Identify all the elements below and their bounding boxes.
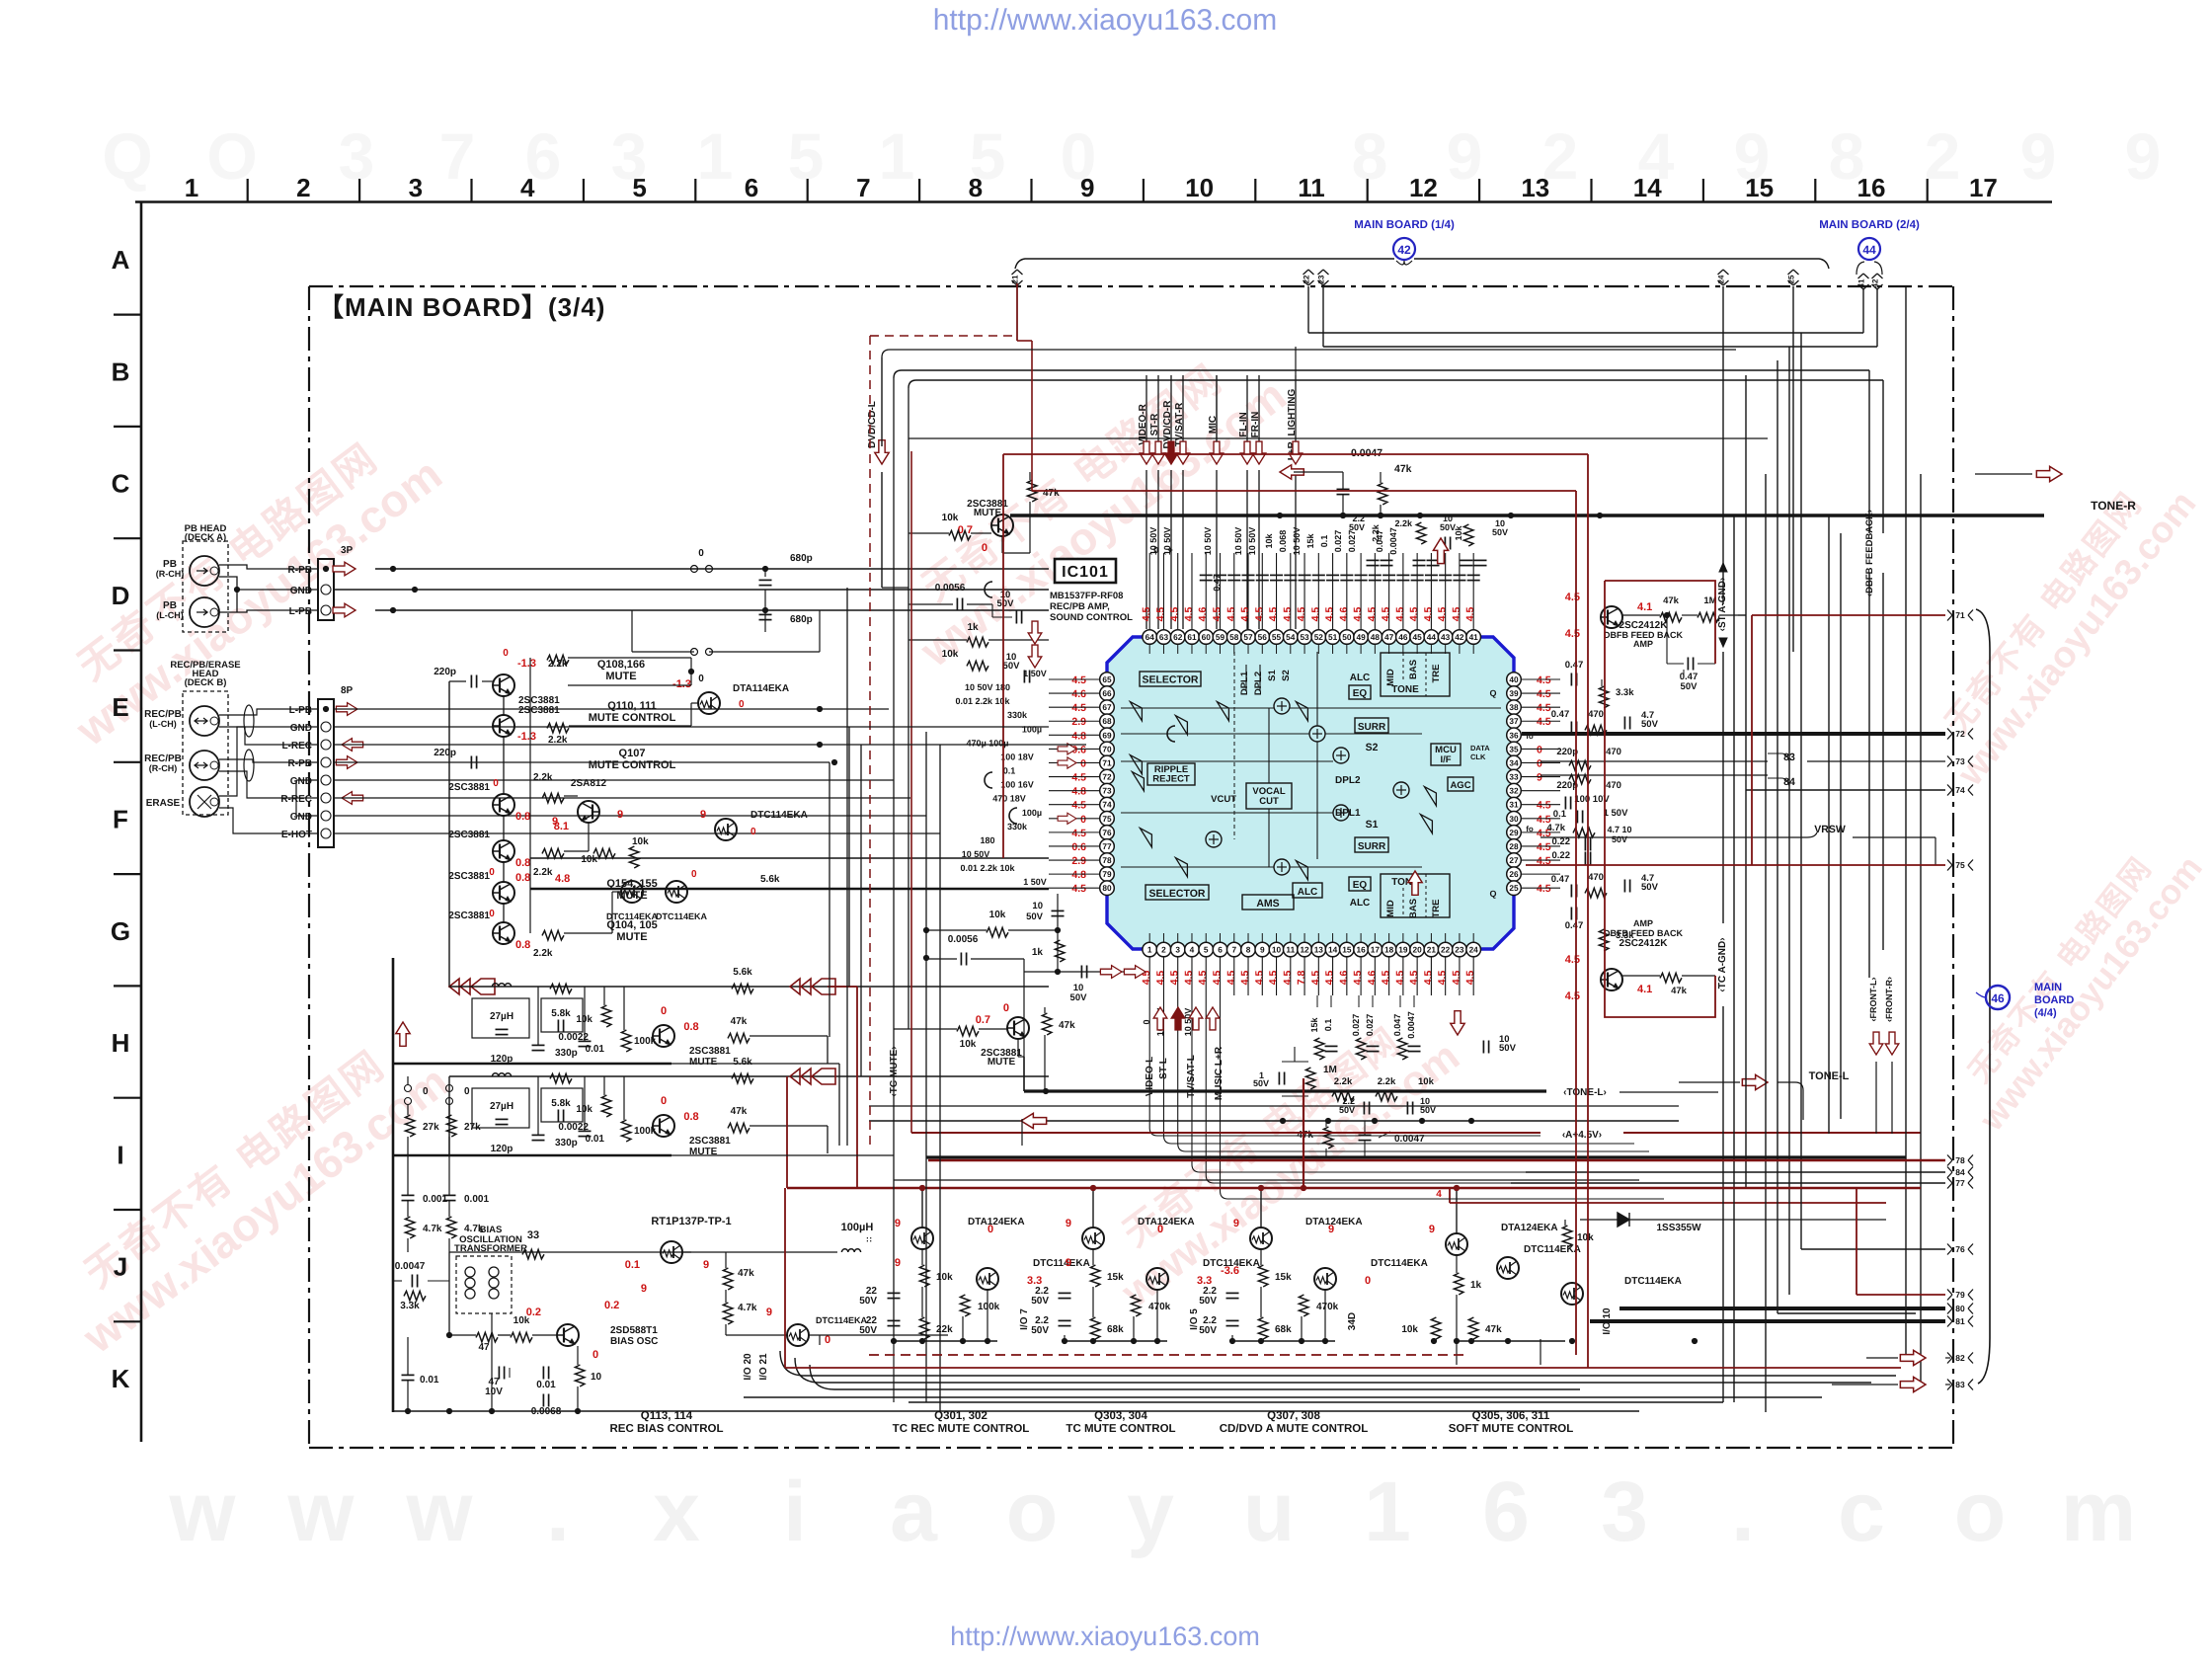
svg-text:4.5: 4.5 xyxy=(1212,607,1224,622)
svg-text:S2: S2 xyxy=(1281,670,1292,681)
REC/PB L-CH head xyxy=(190,706,219,736)
resistor 10k row 2 xyxy=(601,1095,611,1117)
resistor 5.6k row 2 xyxy=(541,1088,583,1122)
svg-text:0: 0 xyxy=(661,1005,667,1017)
svg-text:50V: 50V xyxy=(1499,1043,1517,1054)
svg-text:470k: 470k xyxy=(1148,1302,1171,1312)
svg-text:59: 59 xyxy=(1216,632,1225,642)
capacitor 0.01 left xyxy=(402,1374,415,1376)
svg-text:220p: 220p xyxy=(1556,780,1578,791)
IC101 right pins 40-25 xyxy=(1507,673,1522,687)
svg-text:3.3k: 3.3k xyxy=(400,1301,420,1311)
svg-text:9: 9 xyxy=(1080,173,1094,202)
connector 42 xyxy=(1872,274,1883,278)
wine arrows on left pin leads xyxy=(1058,744,1076,754)
long verticals left of ic xyxy=(846,588,848,1146)
svg-text:34D: 34D xyxy=(1347,1312,1358,1330)
svg-text:220p: 220p xyxy=(434,748,456,758)
svg-text:0.0047: 0.0047 xyxy=(395,1261,426,1272)
svg-text:680p: 680p xyxy=(790,614,813,625)
svg-text:Q307, 308: Q307, 308 xyxy=(1267,1410,1320,1422)
svg-text:470: 470 xyxy=(1588,709,1604,720)
svg-text:2: 2 xyxy=(1161,945,1166,955)
svg-text:4.5: 4.5 xyxy=(1464,971,1476,986)
svg-text:http://www.xiaoyu163.com: http://www.xiaoyu163.com xyxy=(950,1622,1260,1651)
svg-text:70: 70 xyxy=(1102,744,1112,753)
svg-text:76: 76 xyxy=(1102,828,1112,837)
thick bus below ic xyxy=(1024,1089,1546,1092)
bottom bus wires xyxy=(393,1410,1639,1412)
svg-text:10 50V: 10 50V xyxy=(1203,527,1213,556)
svg-text:47k: 47k xyxy=(738,1268,754,1279)
bus top left entering xyxy=(882,587,908,589)
svg-text:2.2k: 2.2k xyxy=(548,735,568,746)
arrow up at 48 xyxy=(1408,871,1422,895)
PB R-CH head xyxy=(190,556,219,586)
svg-text:2SC3881: 2SC3881 xyxy=(689,1046,731,1057)
svg-text:8P: 8P xyxy=(341,685,354,696)
svg-text:0: 0 xyxy=(982,542,987,554)
svg-text:16: 16 xyxy=(1857,173,1886,202)
svg-text:4.5: 4.5 xyxy=(1394,971,1406,986)
svg-text:12: 12 xyxy=(1300,945,1309,955)
svg-text:-1.3: -1.3 xyxy=(517,658,536,670)
svg-text:330p: 330p xyxy=(555,1138,578,1148)
svg-text:10k: 10k xyxy=(960,1039,977,1050)
svg-text:Q: Q xyxy=(102,119,152,193)
svg-text:1 50V: 1 50V xyxy=(1023,669,1047,678)
svg-text:MUTE CONTROL: MUTE CONTROL xyxy=(589,759,676,771)
svg-text:4.5: 4.5 xyxy=(1537,688,1551,700)
resistor 1k q305 xyxy=(1454,1273,1463,1295)
svg-text:0.01 2.2k 10k: 0.01 2.2k 10k xyxy=(960,863,1015,873)
svg-text:D: D xyxy=(112,581,130,610)
svg-text:0: 0 xyxy=(1157,1224,1163,1235)
svg-text:2.2k: 2.2k xyxy=(533,867,553,878)
svg-text:2SC2412K: 2SC2412K xyxy=(1619,938,1669,949)
svg-text:u: u xyxy=(1243,1465,1296,1559)
svg-text:0.01: 0.01 xyxy=(420,1375,439,1386)
bus line y444 xyxy=(908,437,1768,439)
svg-text:R-PB: R-PB xyxy=(288,758,312,769)
svg-text:H: H xyxy=(112,1028,130,1058)
svg-text:0: 0 xyxy=(1080,757,1086,769)
svg-text:Q301, 302: Q301, 302 xyxy=(934,1410,987,1422)
resistor 1M dbfb xyxy=(1698,612,1719,622)
svg-text:MUTE: MUTE xyxy=(689,1057,718,1068)
svg-text:47k: 47k xyxy=(1671,986,1688,996)
svg-text:1: 1 xyxy=(1259,1070,1264,1080)
connector 81 xyxy=(1947,1316,1952,1327)
svg-text:ALC: ALC xyxy=(1298,887,1318,898)
svg-text:42: 42 xyxy=(1397,243,1411,257)
deck lines into board xyxy=(849,726,1049,728)
svg-text:1SS355W: 1SS355W xyxy=(1656,1223,1701,1233)
svg-text:9: 9 xyxy=(766,1307,772,1318)
svg-text:DBFB FEED BACK: DBFB FEED BACK xyxy=(1604,928,1683,938)
svg-text:50V: 50V xyxy=(1003,661,1021,672)
svg-text:68: 68 xyxy=(1102,716,1112,726)
svg-text:60: 60 xyxy=(1202,632,1212,642)
connector 72 xyxy=(1947,729,1952,740)
svg-text:17: 17 xyxy=(1969,173,1998,202)
svg-text:330k: 330k xyxy=(1007,822,1028,831)
svg-text:4.5: 4.5 xyxy=(1071,674,1086,686)
svg-text:0.8: 0.8 xyxy=(515,857,530,869)
resistor 68k q303 xyxy=(1090,1317,1100,1339)
svg-text:4.6: 4.6 xyxy=(1366,971,1378,986)
svg-text:I/F: I/F xyxy=(1440,754,1451,765)
connector 75 xyxy=(1947,860,1952,871)
svg-text:EQ: EQ xyxy=(1353,688,1368,699)
jumper 0 and 680p filters deck A xyxy=(691,566,698,573)
svg-text:L-PB: L-PB xyxy=(289,606,312,617)
svg-text:61: 61 xyxy=(1187,632,1197,642)
svg-text:4.5: 4.5 xyxy=(1537,702,1551,714)
connector 84 xyxy=(1947,1167,1952,1178)
svg-text:i: i xyxy=(783,1465,807,1559)
svg-text:0.01: 0.01 xyxy=(536,1380,556,1390)
svg-text:10k: 10k xyxy=(1418,1076,1435,1087)
eq box top xyxy=(1349,685,1371,699)
svg-text:4.5: 4.5 xyxy=(1154,971,1166,986)
IC101 bottom pins 1-24 xyxy=(1143,942,1157,957)
transistor 2SC3881 mute row 2 xyxy=(653,1115,674,1137)
svg-text:13: 13 xyxy=(1521,173,1549,202)
svg-text:10 50V: 10 50V xyxy=(1292,527,1302,556)
svg-text:72: 72 xyxy=(1102,772,1112,782)
svg-text:83: 83 xyxy=(1955,1380,1965,1389)
svg-text:TC MUTE CONTROL: TC MUTE CONTROL xyxy=(1066,1423,1175,1435)
svg-text:100µ: 100µ xyxy=(1022,808,1042,818)
svg-text:DPL2: DPL2 xyxy=(1253,672,1264,695)
svg-text:74: 74 xyxy=(1955,785,1965,795)
resistor 47k dbfb bottom xyxy=(1660,973,1682,983)
svg-text:1M: 1M xyxy=(1323,1065,1337,1075)
svg-text:‹FRONT-R›: ‹FRONT-R› xyxy=(1884,977,1894,1022)
svg-text:IC101: IC101 xyxy=(1062,564,1109,581)
svg-text:50V: 50V xyxy=(1199,1325,1217,1336)
svg-text:4.5: 4.5 xyxy=(1324,971,1336,986)
svg-text:SURR: SURR xyxy=(1358,841,1386,852)
svg-text:10k: 10k xyxy=(632,836,649,847)
watermark pink diagonal stamps xyxy=(38,411,451,756)
inductor 27uH row 1 xyxy=(472,998,529,1038)
resistor 47k q305 xyxy=(1431,1317,1441,1339)
svg-text:Q113, 114: Q113, 114 xyxy=(641,1410,693,1422)
resistor 10k q301 xyxy=(919,1265,929,1287)
svg-text:REC BIAS CONTROL: REC BIAS CONTROL xyxy=(610,1423,724,1435)
svg-text:50V: 50V xyxy=(1641,882,1659,893)
svg-text:2SD588T1: 2SD588T1 xyxy=(610,1325,658,1336)
svg-text:100µH: 100µH xyxy=(841,1222,874,1233)
capacitors 22 50V q301 xyxy=(888,1292,901,1294)
arrows deck B xyxy=(336,703,357,716)
svg-text:79: 79 xyxy=(1955,1290,1965,1300)
svg-text:50V: 50V xyxy=(1031,1296,1049,1307)
svg-text:(L-CH): (L-CH) xyxy=(149,719,177,729)
2SC3881 mute top xyxy=(991,515,1013,536)
resistor 15k q303 xyxy=(1090,1265,1100,1287)
svg-text:0: 0 xyxy=(661,1095,667,1107)
svg-text:TRE: TRE xyxy=(1431,900,1442,918)
svg-text:MAIN BOARD (2/4): MAIN BOARD (2/4) xyxy=(1819,219,1920,231)
svg-text:81: 81 xyxy=(1955,1316,1965,1326)
svg-text:0: 0 xyxy=(987,1224,993,1235)
svg-text:(4/4): (4/4) xyxy=(2034,1007,2057,1019)
connector 25 xyxy=(1788,270,1799,275)
svg-text:470: 470 xyxy=(1606,780,1621,791)
resistor 10k bias xyxy=(511,1332,532,1342)
svg-text:0.047: 0.047 xyxy=(1392,1014,1402,1037)
svg-text:SOFT MUTE CONTROL: SOFT MUTE CONTROL xyxy=(1449,1423,1574,1435)
svg-text:SELECTOR: SELECTOR xyxy=(1143,674,1199,686)
svg-text:9: 9 xyxy=(641,1283,647,1295)
svg-text:4.5: 4.5 xyxy=(1565,628,1580,640)
svg-text:51: 51 xyxy=(1328,632,1338,642)
svg-text:4.5: 4.5 xyxy=(1282,971,1294,986)
svg-text:0: 0 xyxy=(464,1086,470,1097)
svg-text:27: 27 xyxy=(1509,855,1519,865)
ruler top line xyxy=(135,200,2052,203)
svg-text:10: 10 xyxy=(1272,945,1282,955)
svg-text:4.5: 4.5 xyxy=(1239,607,1251,622)
svg-text:45: 45 xyxy=(1413,632,1423,642)
svg-text:4.5: 4.5 xyxy=(1183,971,1195,986)
svg-text:13: 13 xyxy=(1314,945,1324,955)
resistor 47k dbfb top xyxy=(1660,612,1682,622)
svg-text:74: 74 xyxy=(1102,800,1112,810)
svg-text:63: 63 xyxy=(1159,632,1169,642)
svg-text:5: 5 xyxy=(788,119,825,193)
mute bus lines xyxy=(530,857,1049,859)
capacitor 0.0047 xyxy=(411,1275,413,1288)
bottom long runs xyxy=(893,1341,895,1402)
svg-text:4.5: 4.5 xyxy=(1309,971,1321,986)
svg-text:9: 9 xyxy=(700,809,706,821)
svg-text:2SC3881: 2SC3881 xyxy=(448,830,490,840)
svg-text:4: 4 xyxy=(1436,1189,1442,1200)
arrow row 1 xyxy=(790,979,800,994)
svg-text:(R-CH): (R-CH) xyxy=(149,763,178,773)
svg-text:w: w xyxy=(406,1465,474,1559)
svg-text:50V: 50V xyxy=(859,1325,877,1336)
svg-text:0.47: 0.47 xyxy=(1551,709,1570,720)
svg-text:DPL1: DPL1 xyxy=(1239,671,1250,695)
arrow up big top xyxy=(1433,538,1448,564)
IC101 designator xyxy=(1055,559,1116,583)
arrow row 2 xyxy=(790,1069,800,1084)
capacitor 0.0056 bottom xyxy=(960,953,962,966)
capacitor 220p upper xyxy=(470,675,472,688)
svg-text:68k: 68k xyxy=(1107,1324,1124,1335)
svg-text:21: 21 xyxy=(1427,945,1437,955)
resistor 5.8k out row 1 xyxy=(732,984,753,993)
wine loop outer around IC xyxy=(1003,453,1588,455)
svg-text:26: 26 xyxy=(1509,869,1519,879)
svg-text:0.47: 0.47 xyxy=(1212,574,1222,592)
svg-text:4.5: 4.5 xyxy=(1239,971,1251,986)
transistor Q group 2SC3881 b xyxy=(493,840,514,862)
transistor 2SC2412K top DBFB xyxy=(1601,606,1622,628)
connector 77 xyxy=(1947,1178,1952,1189)
tone block top xyxy=(1381,653,1450,696)
svg-text:0.027: 0.027 xyxy=(1333,530,1343,553)
svg-text:68k: 68k xyxy=(1275,1324,1292,1335)
filter row 2 xyxy=(449,1075,1049,1077)
svg-text:6: 6 xyxy=(1482,1465,1530,1559)
wine bottom long xyxy=(785,1367,1901,1369)
svg-text:0.0047: 0.0047 xyxy=(1388,527,1398,555)
svg-text:7: 7 xyxy=(856,173,870,202)
svg-text:4.5: 4.5 xyxy=(1225,971,1237,986)
resistor 22k q301 xyxy=(919,1317,929,1339)
svg-text:2.2k: 2.2k xyxy=(533,772,553,783)
svg-text:5: 5 xyxy=(1204,945,1209,955)
resistor 10k row 1 xyxy=(601,1005,611,1027)
wires to 76-84 connectors xyxy=(1526,1171,1945,1173)
svg-text:DVD/CD-L: DVD/CD-L xyxy=(867,401,878,448)
svg-text:100 18V: 100 18V xyxy=(1000,752,1034,761)
svg-text:0.22: 0.22 xyxy=(1552,836,1571,847)
transistor Q104 2SC3881 xyxy=(493,922,514,944)
resistor 4.7k bias xyxy=(723,1303,733,1324)
capacitor 47 10V xyxy=(498,1367,500,1380)
svg-text:3P: 3P xyxy=(341,545,354,556)
svg-text:4.5: 4.5 xyxy=(1451,607,1462,622)
svg-text:42: 42 xyxy=(1455,632,1464,642)
svg-text:9: 9 xyxy=(1260,945,1265,955)
connector 71 xyxy=(1947,610,1952,621)
svg-text:10k: 10k xyxy=(1401,1324,1418,1335)
svg-text:ALC: ALC xyxy=(1350,898,1371,909)
svg-text:7: 7 xyxy=(1231,945,1236,955)
transistor Q305 DTA124EKA xyxy=(1446,1233,1467,1255)
svg-text:Q107: Q107 xyxy=(619,748,646,759)
svg-text:0: 0 xyxy=(691,869,697,880)
line 1195 xyxy=(894,1179,1639,1181)
svg-text:50V: 50V xyxy=(1492,527,1508,537)
PB L-CH head xyxy=(190,597,219,627)
svg-text:F: F xyxy=(113,805,128,834)
svg-text:3: 3 xyxy=(339,119,375,193)
svg-text:39: 39 xyxy=(1509,688,1519,698)
svg-text:4.8: 4.8 xyxy=(555,873,570,885)
svg-text:78: 78 xyxy=(1102,855,1112,865)
svg-text:10k: 10k xyxy=(1454,525,1463,541)
svg-text:9: 9 xyxy=(895,1218,901,1229)
svg-text:0.47: 0.47 xyxy=(1565,920,1584,931)
svg-text:4.5: 4.5 xyxy=(1169,971,1181,986)
capacitor 0.0056 top xyxy=(956,598,958,611)
thick analog bus top xyxy=(1010,514,2044,516)
resistor 33 xyxy=(522,1249,544,1259)
wine wire to 71 xyxy=(1752,614,1945,616)
transistor 2SC3881 mute row 1 xyxy=(653,1025,674,1047)
svg-text:0: 0 xyxy=(739,699,745,710)
ic internal wires xyxy=(1233,652,1235,839)
svg-text:ST-L: ST-L xyxy=(1158,1058,1169,1079)
svg-text:4.1: 4.1 xyxy=(1637,984,1652,995)
resistor 15k q307 xyxy=(1258,1265,1268,1287)
svg-text:7.8: 7.8 xyxy=(1296,971,1307,986)
svg-text:8: 8 xyxy=(1246,945,1251,955)
svg-text:44: 44 xyxy=(1862,243,1876,257)
red down arrow below ic xyxy=(1451,1011,1464,1035)
bus under rows xyxy=(393,1063,671,1066)
svg-text:0: 0 xyxy=(698,548,704,559)
svg-text:18: 18 xyxy=(1384,945,1394,955)
svg-text:10 50V: 10 50V xyxy=(1247,527,1257,556)
capacitor 330p row 1 xyxy=(532,1044,545,1046)
svg-text:10k: 10k xyxy=(1577,1232,1594,1243)
capacitor 0.0047 top xyxy=(1337,488,1350,490)
svg-text:0.001: 0.001 xyxy=(464,1194,489,1205)
resistor 10 xyxy=(575,1365,585,1386)
svg-text:4.5: 4.5 xyxy=(1352,971,1364,986)
cap 10 50V right below xyxy=(1482,1041,1484,1054)
svg-text:2SC3881: 2SC3881 xyxy=(448,782,490,793)
tone block bottom xyxy=(1381,874,1450,917)
jumpers 27k columns xyxy=(405,1085,412,1092)
svg-text:10 50V: 10 50V xyxy=(962,849,990,859)
right long verticals xyxy=(1733,515,1735,1402)
svg-text:1: 1 xyxy=(1364,1465,1411,1559)
svg-text:680p: 680p xyxy=(790,553,813,564)
svg-text:1: 1 xyxy=(879,119,915,193)
thick bus 1172 xyxy=(926,1155,1906,1158)
svg-text:47k: 47k xyxy=(1059,1020,1075,1031)
wine wire to 75 xyxy=(1526,864,1945,866)
svg-text:4.5: 4.5 xyxy=(1324,607,1336,622)
svg-text:4.5: 4.5 xyxy=(1071,800,1086,812)
svg-text:40: 40 xyxy=(1509,674,1519,684)
svg-text:10: 10 xyxy=(1032,901,1043,911)
svg-text:GND: GND xyxy=(290,723,312,734)
svg-text:http://www.xiaoyu163.com: http://www.xiaoyu163.com xyxy=(933,4,1278,37)
REC/PB R-CH head xyxy=(190,751,219,780)
svg-text:0.068: 0.068 xyxy=(1278,530,1288,553)
front arrows xyxy=(1869,1032,1883,1055)
svg-text:BAS: BAS xyxy=(1408,899,1419,918)
svg-text:2.2k: 2.2k xyxy=(1334,1076,1353,1087)
ic internal amps xyxy=(1130,702,1142,721)
svg-text:4.5: 4.5 xyxy=(1296,607,1307,622)
right caps cluster bottom xyxy=(1570,885,1572,898)
connector 80 xyxy=(1947,1304,1952,1314)
svg-text:2SC3881: 2SC3881 xyxy=(689,1136,731,1147)
svg-text:50V: 50V xyxy=(997,598,1015,609)
svg-text:C: C xyxy=(112,469,130,499)
svg-text:14: 14 xyxy=(1633,173,1662,202)
svg-text:o: o xyxy=(1954,1465,2007,1559)
svg-text:DPL2: DPL2 xyxy=(1335,775,1361,786)
svg-text:0: 0 xyxy=(489,909,495,919)
resistor 10k upper xyxy=(987,927,1008,937)
svg-text:4.6: 4.6 xyxy=(1071,688,1086,700)
svg-text:20: 20 xyxy=(1413,945,1423,955)
svg-text:0.01: 0.01 xyxy=(586,1134,605,1145)
svg-text:(DECK B): (DECK B) xyxy=(185,677,227,688)
svg-text:120p: 120p xyxy=(491,1144,513,1154)
wine to 78 xyxy=(928,1159,1945,1161)
ic top pin stubs xyxy=(1148,553,1150,629)
svg-text:9: 9 xyxy=(1066,1257,1071,1269)
svg-text:ALC: ALC xyxy=(1350,673,1371,683)
ic left pin leads xyxy=(1049,678,1099,680)
svg-text:10V: 10V xyxy=(485,1386,503,1397)
svg-text:Q: Q xyxy=(1489,688,1496,698)
